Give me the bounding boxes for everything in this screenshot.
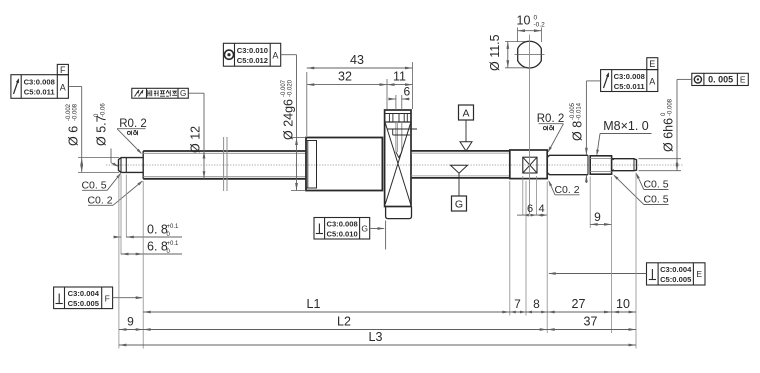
- dimension 9 on M8 thread section: [589, 177, 591, 229]
- dimension 9 (left end): [119, 329, 143, 331]
- extension lines for length dimensions: [118, 175, 120, 349]
- feature control frame perpendicularity C3:0.004 C5:0.005 datum F (bottom left): [54, 287, 113, 309]
- flat-marking cross X on flange face: [385, 123, 410, 204]
- svg-text:M8×1. 0: M8×1. 0: [603, 119, 649, 133]
- svg-text:C3:0.004: C3:0.004: [68, 289, 100, 298]
- leader from frame to Ø6 dimension: [68, 86, 81, 88]
- svg-text:R0. 2: R0. 2: [119, 118, 147, 130]
- svg-text:L2: L2: [337, 315, 351, 329]
- feature control frame perpendicularity C3/C5 datum G (below flange): [314, 218, 370, 240]
- feature control frame runout C3/C5 datum A with F flag (top left): [11, 75, 69, 99]
- shoulder face at start of Ø12 section: [142, 151, 144, 179]
- svg-text:G: G: [361, 224, 368, 234]
- svg-text:0. 8: 0. 8: [147, 223, 168, 237]
- dimension L2: [143, 329, 547, 331]
- Ø6h6 end section with end chamfers: [612, 159, 637, 171]
- svg-text:F: F: [105, 294, 110, 304]
- knurl band tick lines: [388, 114, 390, 123]
- svg-text:-0.002: -0.002: [66, 103, 72, 121]
- svg-text:-0.008: -0.008: [668, 98, 674, 116]
- svg-text:6: 6: [404, 85, 411, 99]
- svg-text:-0.005: -0.005: [570, 102, 576, 120]
- svg-text:10: 10: [616, 297, 630, 311]
- flange bottom land block: [386, 207, 412, 219]
- datum flag box F: [57, 64, 68, 74]
- leader from frame E to block right face extension: [549, 273, 647, 275]
- tapped hole hidden lines in flange top: [395, 122, 397, 152]
- Ø12 section top and bottom edges: [143, 150, 306, 152]
- svg-text:11: 11: [393, 70, 406, 84]
- svg-text:4: 4: [538, 203, 544, 215]
- dimension L3: [119, 344, 636, 346]
- dimension Ø6 with tolerance (vertical label): [78, 157, 119, 159]
- svg-text:A: A: [462, 108, 469, 120]
- undercut line at right face of Ø24 cylinder: [381, 139, 383, 190]
- dimension 6 and 4 on square block: [522, 176, 524, 216]
- dimension 10: [612, 311, 636, 313]
- feature control frame perpendicularity C3:0.004 C5:0.005 datum E (right): [647, 263, 706, 285]
- svg-text:C5:0.005: C5:0.005: [660, 275, 692, 284]
- svg-text:Ø 5.7: Ø 5.7: [95, 115, 109, 146]
- svg-text:0: 0: [534, 15, 538, 22]
- dimension 27: [547, 311, 611, 313]
- svg-text:Ø 6h6: Ø 6h6: [662, 118, 676, 152]
- feature control frame runout C3/C5 datum A with E flag (top right): [601, 70, 658, 92]
- dimension 11: [387, 84, 413, 86]
- counterbore step lines below knurl band: [387, 128, 417, 130]
- surface treatment frame with hatch symbol and G (Korean note): [132, 88, 189, 98]
- svg-text:G: G: [180, 89, 186, 98]
- svg-text:C5:0.011: C5:0.011: [24, 88, 56, 97]
- dimension L1: [143, 311, 510, 313]
- feature control frame concentricity C3/C5 datum A (top middle): [223, 43, 280, 66]
- svg-text:C0. 2: C0. 2: [87, 195, 112, 207]
- dimension 7: [510, 311, 516, 314]
- vertical projection line from section detail to square block: [529, 35, 531, 215]
- svg-text:C3:0.008: C3:0.008: [24, 78, 55, 87]
- extension lines for dimensions 43 32 11: [306, 72, 308, 136]
- extension line from flange bottom land left face: [385, 221, 387, 250]
- svg-text:43: 43: [350, 53, 364, 67]
- svg-text:C3:0.010: C3:0.010: [237, 46, 268, 55]
- knurl band at top of flange: [385, 113, 411, 115]
- svg-text:E: E: [696, 269, 702, 279]
- svg-text:C0. 5: C0. 5: [643, 179, 668, 191]
- svg-text:C3:0.008: C3:0.008: [326, 220, 357, 229]
- svg-text:G: G: [455, 199, 463, 211]
- svg-text:C5:0.012: C5:0.012: [237, 56, 268, 65]
- dimension 6 of tapped hole: [395, 95, 397, 110]
- dimension 32: [307, 84, 387, 86]
- svg-text:F: F: [60, 65, 66, 75]
- svg-text:C5:0.005: C5:0.005: [68, 299, 100, 308]
- svg-text:37: 37: [584, 315, 598, 329]
- leader from 0.005 frame to Ø6h6 dimension: [677, 78, 692, 80]
- svg-text:C0. 5: C0. 5: [643, 194, 668, 206]
- left stub end face with chamfers (Ø6 end): [119, 158, 122, 173]
- leader arrow from frame to flange face extension line: [370, 228, 384, 230]
- leader from concentricity frame to Ø24 dimension: [281, 54, 297, 56]
- svg-text:6: 6: [527, 203, 533, 215]
- ground-zone boundary marks crossing Ø12 section: [223, 137, 225, 191]
- svg-text:-0.2: -0.2: [534, 22, 546, 29]
- dimension Ø8 with tolerance (vertical label): [585, 81, 587, 155]
- square-section block outline: [510, 150, 547, 179]
- leader from surface frame to Ø12 dimension: [188, 92, 204, 94]
- leader from frame to Ø8 dimension: [586, 80, 600, 82]
- svg-text:-0.008: -0.008: [73, 103, 79, 121]
- svg-text:-0.020: -0.020: [288, 79, 294, 97]
- dimension Ø11.5 of section detail: [505, 40, 526, 42]
- section detail of square: circle Ø11.5 with flats: [518, 41, 542, 68]
- svg-text:6. 8: 6. 8: [147, 240, 168, 254]
- svg-text:8: 8: [533, 297, 540, 311]
- svg-text:Ø 6: Ø 6: [67, 126, 81, 146]
- centerline of shaft: [106, 164, 683, 166]
- Ø8 neck section outline with chamfer at left end: [547, 155, 588, 157]
- svg-text:L1: L1: [307, 297, 321, 311]
- inscribed square with diagonals marking square cross-section: [523, 157, 537, 173]
- dimension Ø24g6 with tolerance (vertical label): [291, 137, 306, 139]
- relief groove lines on left stub (0.8 wide): [120, 158, 122, 173]
- dimension 6.8 +0.1/0 to shoulder: [121, 253, 182, 255]
- dimension 37: [547, 329, 636, 331]
- svg-text:Ø 12: Ø 12: [189, 126, 203, 153]
- svg-text:7: 7: [514, 297, 521, 311]
- svg-text:C3:0.004: C3:0.004: [660, 265, 692, 274]
- dimension 8: [526, 311, 532, 314]
- drill point of tapped hole: [396, 152, 402, 158]
- svg-text:32: 32: [338, 70, 352, 84]
- dimension 10 0/-0.2 across flats: [517, 28, 519, 43]
- svg-text:27: 27: [572, 297, 586, 311]
- svg-text:C5:0.010: C5:0.010: [326, 230, 357, 239]
- svg-text:0. 005: 0. 005: [708, 75, 733, 85]
- dimension Ø12 (vertical label): [203, 151, 205, 179]
- svg-text:L3: L3: [369, 330, 383, 344]
- svg-text:A: A: [649, 77, 655, 87]
- svg-text:-0.014: -0.014: [577, 102, 583, 120]
- svg-text:E: E: [649, 59, 655, 69]
- datum flag box E (top right): [647, 58, 658, 70]
- svg-text:C3:0.008: C3:0.008: [614, 72, 645, 81]
- chamfer step at left face of Ø24 cylinder: [306, 141, 317, 189]
- svg-text:C0. 5: C0. 5: [81, 180, 106, 192]
- knurled flange body: [385, 110, 411, 207]
- svg-text:10: 10: [517, 14, 531, 28]
- svg-text:+0.1: +0.1: [167, 224, 180, 230]
- thread minor diameter lines of M8 section: [590, 158, 611, 160]
- datum target A box with triangle on shaft: [459, 105, 474, 120]
- svg-text:A: A: [60, 83, 66, 93]
- thin companion lines of middle section: [411, 152, 510, 154]
- svg-text:Ø 24g6: Ø 24g6: [282, 99, 296, 140]
- svg-text:9: 9: [127, 315, 134, 329]
- svg-text:C0. 2: C0. 2: [554, 184, 579, 196]
- shaft section between flange and square-section block: [411, 150, 510, 152]
- dimension Ø5.7 with tolerance (vertical label): [110, 149, 112, 163]
- dimension Ø6h6 with tolerance (vertical label): [639, 158, 682, 160]
- thin companion lines inside Ø12 section: [143, 152, 306, 154]
- leader from frame F to shoulder extension line: [113, 297, 142, 299]
- datum target G box with triangle on centerline: [451, 165, 468, 173]
- svg-text:9: 9: [594, 210, 601, 224]
- Ø24g6 cylinder outline: [306, 138, 382, 191]
- dimension 0.8 +0.1/0 groove width: [120, 175, 122, 255]
- svg-text:E: E: [740, 75, 746, 85]
- M8 thread section outline: [590, 156, 611, 174]
- svg-text:Ø 8: Ø 8: [571, 121, 585, 141]
- horizontal centerline of section detail: [515, 54, 545, 56]
- dimension 43: [307, 67, 413, 69]
- svg-text:C5:0.011: C5:0.011: [614, 82, 646, 91]
- svg-text:-0.06: -0.06: [101, 103, 107, 117]
- frame concentricity 0.005 datum E (far right): [692, 73, 749, 85]
- left stub Ø6 top and bottom edges: [121, 157, 143, 159]
- svg-text:Ø 11.5: Ø 11.5: [488, 34, 502, 71]
- svg-text:+0.1: +0.1: [167, 241, 180, 247]
- svg-text:R0. 2: R0. 2: [537, 113, 565, 125]
- svg-text:-0.007: -0.007: [281, 79, 287, 97]
- svg-text:A: A: [272, 51, 278, 61]
